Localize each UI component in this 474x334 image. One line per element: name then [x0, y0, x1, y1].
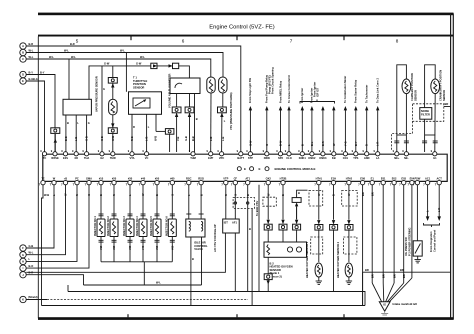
- ECM bottom pin +B: [61, 176, 68, 186]
- ECM bottom pin TE: [39, 176, 46, 186]
- wire with up arrow at x=333.8 (): [332, 106, 336, 152]
- wire label G: [184, 136, 188, 141]
- junction connector J6 under R3: [218, 93, 227, 152]
- wire label R: [112, 194, 116, 196]
- wires TPS to ECM pins VTA VC: [132, 114, 150, 152]
- wire label G: [100, 136, 104, 141]
- injector common bus: [101, 262, 172, 285]
- wire B-R bus from circle A to BATT pin: [26, 42, 241, 152]
- wire W-L bus from circle C to sensor box and resistor R2: [26, 55, 211, 100]
- ECM top pin KNK1: [298, 149, 306, 160]
- resistor oval R1: [109, 99, 118, 115]
- svg-text:L-R: L-R: [437, 208, 441, 212]
- wire label L: [209, 137, 213, 141]
- svg-text:#20: #20: [112, 245, 116, 250]
- svg-text:KNK2: KNK2: [308, 156, 316, 160]
- wire label B: [246, 194, 250, 196]
- wire with up arrow at x=345.4 (To Combination Meter): [343, 76, 347, 152]
- wires from box B1 to ECM pins E2S XD THA: [66, 115, 87, 152]
- svg-text:B: B: [365, 144, 369, 146]
- svg-text:From Circuit Opening: From Circuit Opening: [270, 67, 274, 94]
- svg-text:W-B: W-B: [44, 193, 49, 197]
- wire with up arrow at x=366.7 (To Tachometer): [365, 85, 369, 152]
- ECM top pin LA: [374, 149, 380, 160]
- svg-text:IG: IG: [383, 303, 386, 307]
- ECM top pin BATT: [237, 149, 245, 160]
- svg-text:PC: PC: [75, 176, 79, 180]
- svg-text:THA: THA: [84, 156, 89, 160]
- idle air control valve box: [186, 185, 205, 237]
- svg-text:IST: IST: [224, 220, 228, 224]
- svg-text:B: B: [67, 121, 69, 125]
- svg-text:VC: VC: [145, 156, 149, 160]
- wire label L: [128, 194, 132, 196]
- svg-text:G-B: G-B: [29, 244, 34, 248]
- svg-text:Control and Panel: Control and Panel: [433, 230, 437, 252]
- wire label B: [64, 136, 68, 141]
- page top border line: [38, 13, 454, 16]
- ECM bottom pin RSO: [197, 176, 204, 186]
- header ruler line: [38, 35, 454, 41]
- svg-text:INJECTOR NO.1: INJECTOR NO.1: [93, 216, 97, 236]
- svg-text:E2S: E2S: [63, 156, 68, 160]
- svg-text:W-L: W-L: [64, 48, 69, 52]
- ECM bottom pin VTP: [221, 176, 228, 186]
- svg-text:FILTER: FILTER: [421, 113, 430, 117]
- ECM top pin AND: [363, 149, 370, 160]
- svg-text:To Cruise Control ECU: To Cruise Control ECU: [287, 75, 291, 103]
- svg-text:8: 8: [396, 39, 399, 44]
- ECM bottom pin #30: [126, 176, 133, 186]
- label crankshaft position sensor: [439, 70, 447, 101]
- svg-text:B-B: B-B: [64, 136, 68, 141]
- svg-text:AF1: AF1: [232, 220, 237, 224]
- svg-text:Y-G: Y-G: [343, 142, 347, 146]
- wire label L: [52, 194, 56, 196]
- ECM top pin NSW: [263, 149, 271, 160]
- ground under oxygen sensor 2: [346, 277, 352, 284]
- diagram title Engine Control (5VZ-FE): [209, 25, 274, 31]
- svg-text:CAMSHAFT POSITION: CAMSHAFT POSITION: [410, 73, 414, 101]
- ECM bottom pin E03: [399, 176, 406, 186]
- svg-text:B-L: B-L: [310, 141, 314, 146]
- junction connector J9 with up arrow: [292, 190, 307, 219]
- wire label B: [332, 194, 336, 196]
- wire label R: [224, 194, 228, 196]
- ground symbol under triangle: [381, 311, 388, 315]
- injector no.2: [106, 185, 118, 262]
- wire ECM pin x=65.5 to left circle y=254.7: [26, 185, 65, 255]
- svg-text:EVP: EVP: [208, 156, 213, 160]
- svg-text:BR: BR: [402, 274, 406, 278]
- wire label R: [75, 194, 79, 196]
- left page border: [37, 37, 39, 319]
- svg-text:BR: BR: [365, 268, 369, 272]
- junction connector J2 with down arrow: [108, 66, 117, 88]
- wire label W: [141, 193, 145, 196]
- wire labels near converge: [370, 274, 406, 278]
- ECM top pin VC: [142, 149, 148, 160]
- junction box on TPS wire: [156, 114, 174, 152]
- svg-text:E01: E01: [381, 176, 386, 180]
- wires air flow meter down: [177, 94, 198, 153]
- svg-text:INJECTOR NO.4: INJECTOR NO.4: [135, 216, 139, 236]
- svg-text:RSC: RSC: [186, 176, 192, 180]
- wire B2 bottom bus to circle F bus: [26, 233, 225, 272]
- svg-text:A/C VSV FOR IDLE-UP: A/C VSV FOR IDLE-UP: [213, 224, 217, 252]
- svg-text:OX1: OX1: [343, 156, 349, 160]
- wire label B: [155, 194, 159, 196]
- svg-text:BR: BR: [381, 274, 385, 278]
- svg-text:W-L: W-L: [140, 55, 145, 59]
- wire label W: [111, 136, 115, 141]
- svg-text:OIL PRESS SW: OIL PRESS SW: [404, 237, 408, 256]
- junction connector J4: [172, 107, 181, 152]
- inline connector C2 on G-W bus: [169, 63, 179, 68]
- svg-text:VSV (PRESSURE SWITCHING): VSV (PRESSURE SWITCHING): [229, 92, 233, 130]
- svg-text:TE: TE: [41, 176, 45, 180]
- svg-text:G: G: [22, 253, 24, 257]
- rotated label acis vsv: [213, 224, 217, 252]
- svg-text:D: D: [22, 73, 24, 77]
- ECM bottom pin OX2: [264, 176, 272, 186]
- svg-text:NE+: NE+: [394, 156, 400, 160]
- svg-text:W-B: W-B: [111, 136, 115, 141]
- right page double border: [451, 14, 454, 320]
- svg-text:RSO: RSO: [198, 176, 204, 180]
- ECM bottom pin #10: [97, 176, 104, 186]
- rotated label ho2s bank2 sensor1: [305, 241, 309, 278]
- svg-text:W-L: W-L: [49, 55, 54, 59]
- ECM bottom pin HT2B: [279, 176, 287, 186]
- svg-text:VOLUME AIR FLOW METER: VOLUME AIR FLOW METER: [167, 74, 171, 108]
- svg-text:G-B: G-B: [85, 136, 89, 141]
- svg-text:G: G: [265, 144, 269, 146]
- svg-text:G-B: G-B: [184, 136, 188, 141]
- svg-text:TPS: TPS: [353, 156, 358, 160]
- injector no.1: [93, 185, 105, 262]
- wire with up arrow at x=250.4 (From Stop Light SW): [248, 78, 252, 152]
- wire label BR: [370, 192, 374, 196]
- label from integration control: [429, 230, 437, 252]
- injector no.5: [149, 185, 161, 262]
- connector circle B from other page, wire W-L: [20, 48, 34, 55]
- page bottom border line: [38, 314, 454, 320]
- svg-text:THM: THM: [190, 156, 196, 160]
- wire E08 pin to BR bus: [362, 185, 364, 306]
- svg-text:E02: E02: [392, 176, 397, 180]
- wire label W: [266, 193, 270, 196]
- label camshaft position sensor: [410, 73, 418, 101]
- svg-text:INJECTOR NO.6: INJECTOR NO.6: [165, 216, 169, 236]
- svg-text:LA: LA: [376, 156, 380, 160]
- wire G2 pin up to bus: [102, 66, 105, 152]
- ruler numbers 5 6 7 8: [76, 39, 399, 44]
- svg-text:HEATED OXYGEN SENSOR 2: HEATED OXYGEN SENSOR 2: [336, 241, 340, 278]
- ECM top pin TPS: [352, 149, 359, 160]
- shield dashed wire: [26, 299, 248, 301]
- ECM bottom pin E02: [390, 176, 397, 186]
- resistor component R3: [219, 77, 227, 93]
- svg-text:VTA: VTA: [130, 156, 135, 160]
- svg-text:B-W: B-W: [279, 140, 283, 146]
- wire with up arrow at x=302.3 (From Igniter): [300, 88, 304, 152]
- wire with up arrow at x=311.9 (From Igniter): [310, 88, 314, 152]
- wire ISC to W-L bus: [201, 237, 203, 285]
- inline connector C1 on G-W bus: [151, 63, 157, 68]
- svg-text:HT#2: HT#2: [346, 176, 353, 180]
- junction connector arrow at x=283: [279, 185, 287, 242]
- svg-text:IGF IGT: IGF IGT: [316, 87, 320, 97]
- svg-text:HEATED OXYGEN SENSOR 1: HEATED OXYGEN SENSOR 1: [305, 241, 309, 278]
- svg-text:P 2 POWER STEERING: P 2 POWER STEERING: [408, 228, 412, 256]
- svg-text:B-R: B-R: [321, 141, 325, 146]
- svg-text:CLO: CLO: [286, 156, 291, 160]
- svg-text:NOISE: NOISE: [421, 109, 429, 113]
- wire with up arrow at x=377.7 (To Data Link Conn 2): [376, 78, 380, 152]
- svg-text:KNK3: KNK3: [319, 156, 327, 160]
- wire label W: [154, 136, 158, 141]
- connector circle E from other page, wire B-G: [20, 77, 33, 84]
- svg-text:B: B: [298, 191, 300, 195]
- noise filter dashed box: [413, 104, 444, 122]
- wire label B: [191, 136, 195, 141]
- connector circle C from other page, wire W-L: [20, 55, 34, 62]
- svg-text:#30: #30: [128, 176, 133, 180]
- connector circle I to other page, wire B-O: [20, 264, 33, 271]
- svg-text:G-W: G-W: [248, 140, 252, 146]
- svg-text:W-L: W-L: [29, 48, 34, 52]
- ECM bottom pin W: [50, 176, 57, 186]
- svg-text:To Tachometer: To Tachometer: [365, 85, 369, 103]
- svg-text:HT#1: HT#1: [316, 176, 323, 180]
- svg-text:G: G: [103, 87, 105, 91]
- svg-text:OX2: OX2: [266, 176, 272, 180]
- wire AT1 pin down: [248, 185, 251, 292]
- svg-text:#50: #50: [155, 245, 159, 250]
- label heated oxygen sensor bank1 sensor2: [270, 261, 293, 278]
- wire label B: [199, 194, 203, 196]
- junction connector J3: [108, 123, 117, 152]
- svg-text:#10: #10: [99, 245, 103, 250]
- ECM top pin KB: [330, 149, 336, 160]
- svg-text:R-B: R-B: [130, 136, 134, 141]
- rotated label volume air flow meter: [167, 74, 171, 108]
- svg-text:ACT: ACT: [437, 176, 443, 180]
- svg-text:L-R: L-R: [376, 142, 380, 146]
- svg-text:VTP: VTP: [223, 176, 228, 180]
- wire label G: [234, 194, 238, 196]
- svg-text:V-B: V-B: [176, 137, 180, 141]
- ECM bottom pin E1H: [329, 176, 336, 186]
- crankshaft position sensor box: [422, 65, 440, 152]
- wire label G: [87, 194, 91, 196]
- resistor component R2: [207, 77, 215, 93]
- extra label lines for fuel pump relay wire: [267, 67, 274, 94]
- efi relay dashed box: [233, 198, 254, 209]
- svg-text:L-B: L-B: [221, 137, 225, 141]
- ECM top pin G1: [431, 149, 437, 160]
- wire with up arrow at x=289 (To Cruise Control ECU): [287, 75, 291, 152]
- ECM top pin OX1: [341, 149, 348, 160]
- svg-text:BR: BR: [370, 274, 374, 278]
- svg-text:NE-: NE-: [404, 156, 409, 160]
- svg-text:6: 6: [182, 39, 185, 44]
- svg-text:#40: #40: [141, 245, 145, 250]
- svg-text:B-Y: B-Y: [354, 141, 358, 146]
- svg-text:SP2: SP2: [278, 156, 283, 160]
- ECM top pin SP2: [276, 149, 283, 160]
- junction connector arrow at x=296.6: [293, 206, 301, 242]
- sensor box B1 (vapor pressure sensor): [63, 99, 91, 115]
- label intake manifold: [393, 302, 418, 306]
- svg-text:SENSOR: SENSOR: [442, 90, 446, 101]
- wire label L: [187, 194, 191, 196]
- svg-text:#60: #60: [170, 245, 174, 250]
- svg-text:G: G: [88, 121, 90, 125]
- wire label L: [145, 137, 149, 141]
- svg-text:VPC: VPC: [219, 156, 224, 160]
- svg-text:H: H: [22, 260, 24, 264]
- svg-text:+B: +B: [64, 176, 68, 180]
- ECM bottom pin E1: [368, 176, 375, 186]
- ECM top pin KNK3: [319, 149, 327, 160]
- ECM top pin NE-: [402, 149, 409, 160]
- svg-text:B-G: B-G: [33, 77, 38, 81]
- svg-text:INJECTOR NO.3: INJECTOR NO.3: [122, 216, 126, 236]
- ECM top pin TC: [40, 149, 46, 160]
- svg-text:CRANKSHAFT POSITION: CRANKSHAFT POSITION: [439, 70, 443, 101]
- wire label BR: [361, 192, 365, 196]
- camshaft position sensor box: [394, 65, 411, 152]
- svg-text:To EGR VSV: To EGR VSV: [255, 201, 259, 216]
- wire label R: [130, 136, 134, 141]
- svg-text:GMA: GMA: [86, 176, 92, 180]
- svg-text:B-Y: B-Y: [29, 70, 34, 74]
- svg-text:E: E: [22, 79, 24, 83]
- wire with up arrow at x=322.9 (): [321, 106, 325, 152]
- svg-text:G-W: G-W: [136, 62, 142, 66]
- svg-text:#50: #50: [155, 176, 160, 180]
- ECM bottom pin #20: [110, 176, 117, 186]
- ECM top pin CLO: [285, 149, 292, 160]
- svg-text:W-L: W-L: [120, 48, 125, 52]
- wires AC1 ACT with down arrows: [426, 185, 442, 221]
- wire B-Y from circle D to junction J1: [26, 70, 55, 128]
- volume air flow meter box: [170, 78, 200, 94]
- connector circle K shield: [20, 295, 38, 302]
- ECM top pin VTA: [128, 149, 135, 160]
- throttle position sensor T1 label: [133, 76, 148, 90]
- label power steering switch: [404, 228, 412, 256]
- ECM bottom pin E01: [379, 176, 386, 186]
- svg-text:#20: #20: [112, 176, 117, 180]
- svg-text:WFSE: WFSE: [51, 156, 59, 160]
- wire label V: [176, 137, 180, 141]
- svg-text:NSW: NSW: [264, 156, 271, 160]
- ECM top pin WFSE: [51, 149, 59, 160]
- svg-text:#60: #60: [170, 176, 175, 180]
- svg-text:B-O: B-O: [29, 264, 34, 268]
- wire with up arrow at x=355.8 (From Starter Relay): [354, 79, 358, 152]
- svg-text:XD: XD: [74, 156, 78, 160]
- connector circle H to other page, wire L: [20, 257, 31, 264]
- brace under AC wires: [424, 223, 440, 227]
- ground under switch: [415, 256, 421, 263]
- upper dashed connector box branch 1: [309, 191, 323, 207]
- svg-text:L-B: L-B: [74, 137, 78, 141]
- svg-text:R: R: [133, 125, 135, 129]
- svg-text:K: K: [22, 298, 24, 302]
- wire label G: [85, 136, 89, 141]
- upper dashed connector box branch 2: [342, 191, 358, 207]
- wire label W: [317, 193, 321, 196]
- wire TE pin to ground bus: [42, 185, 50, 306]
- vsv box B2: [223, 185, 240, 292]
- svg-text:AND: AND: [364, 156, 370, 160]
- rotated label ho2s sensor2: [336, 241, 340, 278]
- svg-text:G-B: G-B: [100, 136, 104, 141]
- ECM top pin THM: [189, 149, 196, 160]
- connector circle D from other page, wire B-Y: [20, 70, 33, 77]
- svg-text:B: B: [249, 227, 251, 231]
- svg-text:B-B: B-B: [191, 136, 195, 141]
- injector no.6: [165, 185, 177, 262]
- connector circle G to other page, wire W-L: [20, 251, 34, 258]
- svg-text:KB: KB: [332, 156, 336, 160]
- svg-text:B-R: B-R: [29, 42, 34, 46]
- svg-text:SENSOR: SENSOR: [133, 85, 144, 89]
- wire labels under box B1: [67, 121, 90, 125]
- svg-text:7: 7: [290, 39, 293, 44]
- svg-text:B: B: [192, 257, 194, 261]
- svg-text:VAPOR PRESSURE SENSOR: VAPOR PRESSURE SENSOR: [95, 76, 99, 112]
- ECM top pin EVP: [207, 149, 214, 160]
- svg-text:B-Y: B-Y: [40, 70, 45, 74]
- ECM bottom pin AC1: [423, 176, 431, 186]
- svg-text:Engine Control (5VZ- FE): Engine Control (5VZ- FE): [209, 25, 274, 31]
- rotated label pressure sensor: [229, 92, 233, 130]
- svg-text:E1H: E1H: [331, 176, 336, 180]
- wire label G: [171, 194, 175, 196]
- wire label B: [99, 194, 103, 196]
- wire W-L bus from circle B to resistor R3: [26, 48, 223, 92]
- svg-text:STP: STP: [248, 156, 253, 160]
- svg-text:BR: BR: [392, 274, 396, 278]
- injector no.3: [122, 185, 134, 262]
- svg-text:CF: CF: [234, 176, 238, 180]
- svg-text:B: B: [22, 51, 24, 55]
- wire ECM pin x=54 to left circle y=248: [26, 185, 54, 248]
- svg-text:E03: E03: [401, 176, 406, 180]
- svg-text:ENGINE CONTROL MODULE: ENGINE CONTROL MODULE: [275, 167, 316, 171]
- svg-text:E: E: [244, 167, 246, 171]
- wire ECM pin x=77 to left circle y=261.4: [26, 185, 77, 262]
- svg-text:To Combination Meter: To Combination Meter: [343, 76, 347, 103]
- ECM bottom pin HT#2: [345, 176, 353, 186]
- wire BR from noise filter to border: [444, 102, 451, 106]
- ECM top pin THW: [109, 149, 117, 160]
- ECM top pin THA: [82, 149, 89, 160]
- wire WFSE pin column: [54, 134, 56, 152]
- wire up from ground bus to BR bus: [362, 272, 364, 305]
- wire label W: [64, 193, 68, 196]
- svg-text:PSW: PSW: [414, 176, 420, 180]
- junction under HO2S: [264, 257, 272, 291]
- svg-text:To Data Link Conn 2: To Data Link Conn 2: [376, 78, 380, 103]
- svg-text:THW: THW: [110, 156, 116, 160]
- ECM bottom pin RSC: [184, 176, 191, 186]
